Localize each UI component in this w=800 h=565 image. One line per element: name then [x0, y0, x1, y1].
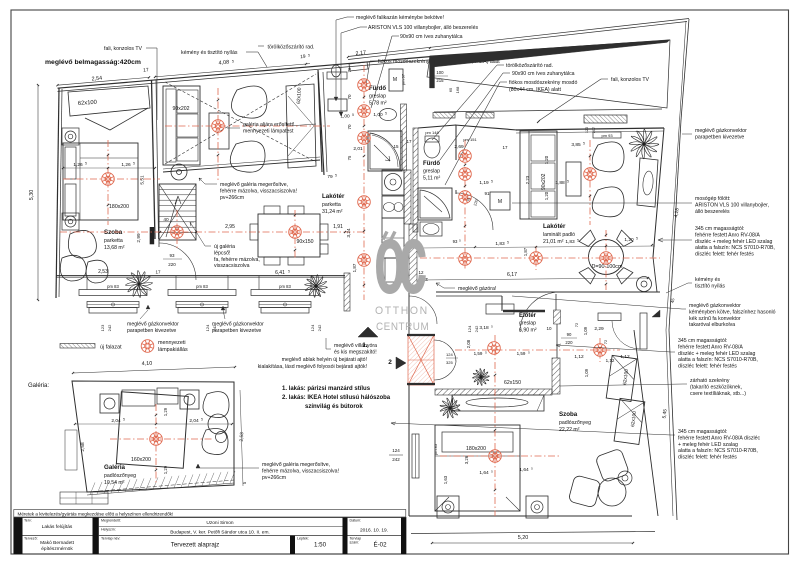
svg-text:meglévő belmagasság:420cm: meglévő belmagasság:420cm — [45, 59, 141, 66]
svg-text:215: 215 — [436, 78, 444, 83]
svg-text:pm 148: pm 148 — [425, 130, 439, 135]
svg-text:2,99: 2,99 — [136, 233, 142, 243]
washer M box top — [389, 69, 403, 91]
svg-text:5,20: 5,20 — [518, 535, 529, 541]
svg-text:1,00: 1,00 — [340, 114, 350, 120]
svg-text:5: 5 — [577, 239, 579, 243]
legend lamp symbol — [141, 340, 154, 353]
svg-text:parapetben kivezetve: parapetben kivezetve — [695, 134, 744, 140]
sofa 90x202 — [163, 86, 200, 165]
svg-text:2,23: 2,23 — [525, 175, 530, 184]
svg-text:17: 17 — [155, 270, 161, 275]
svg-text:díszléc felett: fehér festés: díszléc felett: fehér festés — [695, 252, 754, 258]
szoba2 wardrobes 62x100 — [606, 355, 637, 401]
svg-text:kialakítása, lásd meglévő foly: kialakítása, lásd meglévő folyosói bejár… — [258, 364, 367, 370]
szoba2 chairs — [595, 448, 630, 483]
slab bottom edge line — [434, 109, 662, 112]
washer M unit2 — [490, 192, 510, 210]
svg-text:1,91: 1,91 — [333, 224, 343, 230]
site boundary top — [348, 19, 689, 57]
svg-text:pm 83: pm 83 — [279, 284, 291, 289]
stairs — [159, 184, 196, 240]
dimension 2,17 top — [347, 56, 349, 58]
site boundary right inner line — [666, 21, 686, 330]
gallery wardrobe right — [286, 84, 316, 168]
svg-text:mosógép fölött:: mosógép fölött: — [695, 196, 730, 202]
szoba2 nightstands — [437, 496, 459, 518]
svg-text:parapetben kivezetve: parapetben kivezetve — [212, 328, 261, 334]
svg-text:alatta a falszín: NCS S7010-R7: alatta a falszín: NCS S7010-R70B, — [695, 245, 775, 251]
svg-text:parapetben kivezetve: parapetben kivezetve — [127, 328, 176, 334]
svg-text:törölközőszárító rad.: törölközőszárító rad. — [268, 45, 315, 51]
svg-text:2,04: 2,04 — [189, 418, 199, 424]
svg-text:19: 19 — [300, 54, 306, 60]
svg-text:Lakótér: Lakótér — [322, 193, 345, 200]
svg-text:1.: 1. — [362, 342, 368, 349]
title note row — [14, 510, 406, 518]
svg-text:91: 91 — [484, 191, 490, 196]
wall hatched bath1 right — [401, 104, 407, 170]
svg-text:5: 5 — [201, 418, 203, 422]
svg-text:21,01 m²: 21,01 m² — [543, 239, 564, 245]
svg-text:greslap: greslap — [423, 169, 440, 175]
svg-text:színvilág és bútorok: színvilág és bútorok — [305, 404, 363, 410]
bath1 bidet — [349, 62, 368, 71]
svg-text:M: M — [393, 77, 397, 83]
table chairs — [615, 266, 633, 284]
svg-text:Lakótér: Lakótér — [543, 223, 566, 230]
svg-text:1,20: 1,20 — [544, 155, 549, 164]
svg-text:1,09: 1,09 — [583, 326, 588, 335]
svg-text:2016. 10. 19.: 2016. 10. 19. — [360, 528, 388, 534]
svg-text:2,54: 2,54 — [91, 76, 102, 83]
kitchen cabinets — [382, 170, 404, 195]
dimension left 5,30 — [37, 85, 39, 300]
svg-text:5: 5 — [123, 418, 125, 422]
galeria lower hatched strip — [87, 480, 234, 492]
svg-text:90x202: 90x202 — [541, 173, 547, 190]
svg-text:H: H — [424, 278, 429, 281]
svg-text:meglévő gázkonvektor: meglévő gázkonvektor — [127, 322, 179, 328]
svg-text:1,59: 1,59 — [517, 351, 526, 356]
svg-text:törölközőszárító rad.: törölközőszárító rad. — [506, 63, 553, 69]
living2 sideboard — [637, 158, 658, 207]
svg-text:É-02: É-02 — [373, 542, 387, 549]
svg-text:1,20: 1,20 — [544, 191, 549, 200]
svg-text:Lakás felújítás: Lakás felújítás — [42, 524, 73, 530]
svg-text:fehérre mázolva, visszacsiszol: fehérre mázolva, visszacsiszolva! — [220, 188, 297, 194]
axis lines red — [63, 178, 160, 180]
galeria armchairs — [100, 394, 119, 413]
svg-text:díszléc + meleg fehér LED szal: díszléc + meleg fehér LED szalag — [695, 239, 773, 245]
svg-text:90: 90 — [567, 332, 572, 337]
svg-text:6,17: 6,17 — [507, 272, 517, 278]
svg-text:76: 76 — [347, 67, 352, 73]
svg-text:4,10: 4,10 — [142, 361, 153, 367]
elotér hatch wall piece — [554, 310, 561, 324]
svg-text:124: 124 — [446, 352, 453, 357]
svg-text:5: 5 — [567, 180, 569, 184]
svg-text:1,20: 1,20 — [624, 237, 634, 243]
svg-text:5: 5 — [385, 112, 387, 116]
svg-text:5: 5 — [583, 142, 585, 146]
svg-text:2. lakás: IKEA Hotel stílusú h: 2. lakás: IKEA Hotel stílusú hálószoba — [282, 395, 391, 401]
svg-text:6,90 m²: 6,90 m² — [519, 328, 537, 334]
dim 6,17 — [420, 278, 648, 280]
svg-text:65: 65 — [448, 87, 453, 92]
svg-text:meglévő villanyóra: meglévő villanyóra — [334, 343, 377, 349]
bath2 door arc — [456, 193, 493, 230]
svg-text:1:50: 1:50 — [314, 542, 327, 549]
svg-text:1,29: 1,29 — [163, 407, 168, 416]
gallery dashed outline — [165, 82, 316, 162]
svg-text:124: 124 — [392, 448, 400, 453]
svg-text:fehérre mázolva, visszacsiszol: fehérre mázolva, visszacsiszolva! — [262, 468, 339, 474]
svg-text:2,04: 2,04 — [111, 418, 121, 424]
dimension top left 2,54 — [58, 77, 150, 85]
svg-text:galéria aljára erősített!: galéria aljára erősített! — [243, 122, 294, 128]
svg-text:2,17: 2,17 — [355, 50, 366, 57]
svg-text:meglévő ablak helyén új bejára: meglévő ablak helyén új bejárati ajtó! — [282, 357, 367, 363]
svg-text:kémény és tisztító nyílás: kémény és tisztító nyílás — [181, 50, 238, 56]
svg-text:62x150: 62x150 — [504, 380, 521, 386]
szoba2 hatched wall piece — [552, 358, 560, 394]
svg-text:M: M — [498, 199, 502, 205]
dims gallery row — [63, 231, 364, 233]
szoba2 right slanted wall — [634, 330, 658, 516]
svg-text:visszacsiszolva: visszacsiszolva — [214, 263, 250, 269]
svg-text:Fürdő: Fürdő — [423, 161, 440, 167]
svg-text:+ meleg fehér LED szalag: + meleg fehér LED szalag — [678, 442, 738, 448]
svg-text:124: 124 — [310, 324, 315, 331]
svg-text:242: 242 — [474, 325, 479, 332]
svg-text:5: 5 — [507, 241, 509, 245]
bath1 washbasin — [380, 109, 397, 121]
svg-text:Előtér: Előtér — [519, 313, 537, 319]
svg-text:1,87: 1,87 — [352, 263, 357, 272]
wall gallery/bath vertical — [318, 72, 322, 172]
szoba2 62x150 cabinet — [452, 395, 544, 411]
svg-text:1,12: 1,12 — [606, 358, 615, 363]
svg-text:1,26: 1,26 — [121, 162, 131, 168]
svg-text:3,26: 3,26 — [464, 455, 469, 464]
svg-text:17: 17 — [406, 139, 412, 144]
svg-text:31,24 m²: 31,24 m² — [322, 209, 343, 215]
svg-text:kék színű fa konvektor: kék színű fa konvektor — [689, 316, 741, 322]
armchairs bedroom bottom — [68, 230, 96, 258]
galeria headboard — [122, 390, 155, 406]
svg-text:mennyezeti: mennyezeti — [158, 340, 186, 346]
svg-text:5: 5 — [133, 162, 135, 166]
svg-text:pm 83: pm 83 — [196, 284, 208, 289]
leader arrows to boiler — [335, 20, 337, 97]
svg-text:325: 325 — [446, 360, 453, 365]
marker 1 triangle — [358, 327, 378, 337]
svg-text:1,26: 1,26 — [73, 162, 83, 168]
svg-text:1,63: 1,63 — [443, 475, 448, 484]
svg-text:szám:: szám: — [350, 541, 360, 545]
dining table 90x150 — [258, 214, 320, 257]
plant bedroom — [126, 271, 153, 298]
svg-text:40: 40 — [163, 217, 169, 223]
living2 lamp table — [566, 162, 581, 196]
svg-text:70: 70 — [347, 94, 352, 100]
svg-text:Tervlap név:: Tervlap név: — [101, 537, 120, 541]
svg-text:1,12: 1,12 — [574, 354, 584, 360]
ceiling lamps — [102, 173, 115, 186]
svg-text:pm 83: pm 83 — [433, 443, 438, 455]
svg-text:220: 220 — [168, 262, 176, 267]
svg-text:ARISTON VLS 100 villanybojler,: ARISTON VLS 100 villanybojler, álló besz… — [368, 25, 478, 31]
svg-text:zárható szekrény: zárható szekrény — [690, 378, 730, 384]
svg-text:15: 15 — [393, 144, 399, 149]
gallery big leaf chairs — [231, 86, 267, 118]
svg-text:Szoba: Szoba — [104, 229, 123, 236]
elotér bench — [598, 313, 621, 321]
svg-text:123: 123 — [100, 324, 105, 331]
svg-text:345 cm magasságtól:: 345 cm magasságtól: — [678, 429, 727, 435]
svg-text:93: 93 — [169, 253, 175, 258]
existing wall black wedge — [430, 40, 670, 67]
svg-text:2,29: 2,29 — [594, 326, 604, 332]
svg-text:3,18: 3,18 — [479, 325, 489, 331]
svg-text:parketta: parketta — [322, 202, 341, 208]
axis tick slashes — [363, 96, 365, 98]
svg-text:ARISTON VLS 100 villanybojler,: ARISTON VLS 100 villanybojler, — [695, 202, 769, 208]
svg-text:új galéria: új galéria — [214, 244, 235, 250]
svg-text:meglévő galéria megerősítve,: meglévő galéria megerősítve, — [262, 462, 330, 468]
svg-text:OTTHON: OTTHON — [375, 305, 429, 317]
svg-text:oc: oc — [374, 203, 426, 315]
tv cabinet top — [584, 115, 627, 123]
radiator box elotér — [486, 304, 514, 314]
svg-text:meglévő gázkonvektor: meglévő gázkonvektor — [212, 322, 264, 328]
svg-text:1,83: 1,83 — [495, 241, 505, 247]
svg-text:5,30: 5,30 — [29, 190, 35, 201]
svg-text:Dátum:: Dátum: — [350, 519, 362, 523]
living2 sofa 90x202 — [520, 131, 557, 219]
bedside tables with rings — [62, 128, 79, 145]
svg-text:greslap: greslap — [369, 94, 386, 100]
svg-text:75: 75 — [347, 155, 352, 160]
svg-text:5: 5 — [288, 270, 290, 274]
svg-text:2,08: 2,08 — [466, 339, 471, 348]
svg-text:Budapest, V. ker. Petőfi Sándo: Budapest, V. ker. Petőfi Sándor utca 10.… — [170, 530, 270, 536]
svg-text:fehérre festett Anro RV-08/A: fehérre festett Anro RV-08/A — [678, 344, 743, 350]
svg-text:Megrendelő:: Megrendelő: — [101, 519, 121, 523]
svg-text:90x202: 90x202 — [172, 106, 189, 112]
svg-text:5: 5 — [232, 60, 234, 64]
svg-text:díszléc felett: fehér festés: díszléc felett: fehér festés — [678, 364, 737, 370]
entrance door arcs — [434, 340, 456, 362]
round side table by sofa — [171, 164, 187, 180]
szoba2 table oval — [466, 398, 528, 407]
svg-text:100: 100 — [436, 70, 444, 75]
svg-text:Helyszín:: Helyszín: — [101, 528, 116, 532]
gallery lamp box — [209, 113, 229, 149]
svg-text:242: 242 — [392, 457, 400, 462]
svg-text:2,58: 2,58 — [80, 442, 86, 452]
svg-text:62x100: 62x100 — [296, 87, 303, 104]
svg-text:345 cm magasságtól:: 345 cm magasságtól: — [678, 338, 727, 344]
svg-text:1,12: 1,12 — [620, 354, 630, 360]
svg-text:168: 168 — [455, 86, 460, 93]
svg-text:1,59: 1,59 — [474, 351, 483, 356]
svg-text:2: 2 — [388, 359, 392, 366]
svg-text:5: 5 — [335, 174, 337, 178]
bath1 wc — [327, 72, 347, 79]
svg-text:90x90 cm íves zuhanytálca: 90x90 cm íves zuhanytálca — [400, 34, 463, 40]
svg-text:(takarító eszközöknek,: (takarító eszközöknek, — [690, 384, 742, 390]
wall below entrance hatched — [435, 389, 552, 395]
elotér walls — [436, 291, 660, 293]
galeria sofa right — [203, 392, 229, 418]
svg-text:93: 93 — [453, 239, 458, 244]
dims bedroom — [63, 167, 155, 169]
watermark oc logo — [374, 203, 429, 333]
svg-text:220: 220 — [565, 340, 573, 345]
wall bedroom/living vertical — [152, 81, 156, 240]
svg-text:és kis megszakító!: és kis megszakító! — [334, 349, 377, 355]
site boundary right lower — [669, 330, 677, 520]
svg-text:tisztító nyílás: tisztító nyílás — [695, 283, 725, 289]
svg-text:1. lakás: párizsi manzárd stíl: 1. lakás: párizsi manzárd stílus — [282, 386, 371, 392]
svg-text:(80x44 cm, IKEA) alatt: (80x44 cm, IKEA) alatt — [509, 87, 561, 93]
bed 180x200 — [63, 143, 138, 220]
svg-text:72: 72 — [574, 322, 579, 327]
svg-text:kéményben kötve, falszínhez ha: kéményben kötve, falszínhez hasonló — [689, 309, 776, 315]
svg-text:90x150: 90x150 — [296, 239, 313, 245]
wall right of gallery — [318, 70, 324, 175]
bedroom outline — [56, 89, 59, 299]
svg-text:17: 17 — [502, 145, 508, 150]
svg-text:1,29: 1,29 — [163, 465, 168, 474]
svg-text:5,11 m²: 5,11 m² — [423, 176, 440, 182]
svg-text:242: 242 — [317, 324, 322, 331]
svg-text:Tervező:: Tervező: — [24, 537, 38, 541]
svg-text:meglévő falikazán kéménybe bek: meglévő falikazán kéménybe bekötve! — [356, 15, 444, 21]
wardrobe door leaf — [640, 313, 647, 349]
svg-text:meglévő galéria megerősítve,: meglévő galéria megerősítve, — [220, 182, 288, 188]
svg-text:79: 79 — [327, 174, 333, 180]
bath1 shower — [368, 131, 402, 171]
site boundary right upper — [681, 19, 689, 120]
svg-text:6,41: 6,41 — [275, 270, 285, 276]
neighbour slab trapezoid — [427, 40, 670, 108]
svg-text:124: 124 — [205, 324, 210, 331]
svg-text:180x200: 180x200 — [109, 204, 129, 210]
svg-text:3,85: 3,85 — [571, 142, 581, 148]
facade right corner — [344, 273, 350, 311]
living2 plant top — [629, 129, 659, 159]
svg-text:2,69: 2,69 — [454, 144, 464, 150]
dining chairs — [264, 206, 280, 214]
svg-text:padlószőnyeg: padlószőnyeg — [559, 420, 591, 426]
kitchen lower cabinet — [385, 258, 407, 282]
svg-text:fa, fehérre mázolva,: fa, fehérre mázolva, — [214, 257, 260, 263]
svg-text:90x90 cm íves zuhanytálca: 90x90 cm íves zuhanytálca — [512, 71, 575, 77]
bath2 washbasin box — [420, 222, 442, 236]
kitchen wall hatched — [409, 224, 417, 290]
dims living2 axis row — [420, 246, 655, 248]
svg-text:díszléc + meleg fehér LED szal: díszléc + meleg fehér LED szalag — [678, 351, 756, 357]
svg-text:5,78 m²: 5,78 m² — [369, 101, 387, 107]
unit2 entry walls — [455, 125, 517, 130]
svg-text:pv+266cm: pv+266cm — [262, 475, 286, 481]
site boundary bottom — [411, 532, 655, 534]
svg-text:2,95: 2,95 — [225, 224, 235, 230]
svg-text:fehérre festett Anro RV-08/A d: fehérre festett Anro RV-08/A díszléc — [678, 435, 760, 441]
svg-text:alatta a falszín: NCS S7010-R7: alatta a falszín: NCS S7010-R70B, — [678, 448, 758, 454]
szoba2 outline — [409, 515, 632, 517]
svg-text:160x200: 160x200 — [131, 457, 151, 463]
svg-text:pm 83: pm 83 — [107, 284, 119, 289]
svg-text:2,53: 2,53 — [98, 269, 108, 275]
svg-text:fehérre festett Anro RV-08/A: fehérre festett Anro RV-08/A — [695, 232, 760, 238]
svg-text:CENTRUM: CENTRUM — [376, 322, 429, 334]
svg-text:17: 17 — [143, 67, 149, 73]
svg-text:1,87: 1,87 — [523, 247, 528, 256]
galeria steps bottom left — [60, 492, 108, 504]
svg-text:építészmérnök: építészmérnök — [41, 546, 73, 552]
svg-text:padlószőnyeg: padlószőnyeg — [104, 473, 136, 479]
galeria bed rotated — [116, 392, 188, 468]
svg-text:Fürdő: Fürdő — [369, 86, 386, 92]
svg-text:Galéria: Galéria — [104, 464, 126, 471]
dims galeria — [73, 367, 235, 373]
svg-text:10: 10 — [546, 326, 552, 331]
svg-text:1,00: 1,00 — [373, 112, 383, 118]
svg-text:2,01: 2,01 — [353, 146, 363, 152]
svg-text:207: 207 — [592, 127, 596, 133]
svg-text:álló beszerelés: álló beszerelés — [695, 209, 730, 215]
galeria outline — [72, 381, 234, 492]
svg-text:csere textíliáknak, stb...): csere textíliáknak, stb...) — [690, 391, 746, 397]
svg-text:kémény és: kémény és — [695, 277, 720, 283]
svg-text:345 cm magasságtól:: 345 cm magasságtól: — [695, 226, 744, 232]
svg-text:4,08: 4,08 — [218, 60, 229, 67]
szoba2 bed — [435, 425, 520, 511]
svg-text:takaróval elburkolva: takaróval elburkolva — [689, 322, 735, 328]
svg-text:meglévő gázóra!: meglévő gázóra! — [458, 286, 496, 292]
elotér door arc — [520, 292, 560, 332]
corridor wall above entrance — [408, 292, 410, 335]
dim 5,20 bottom — [432, 542, 633, 544]
svg-text:parketta: parketta — [104, 238, 123, 244]
svg-text:pm 97: pm 97 — [401, 73, 406, 85]
svg-text:2,53: 2,53 — [239, 432, 245, 442]
svg-text:5: 5 — [85, 162, 87, 166]
boiler wall unit — [328, 99, 347, 111]
black triangle wall mark — [652, 310, 660, 317]
plant szoba2 — [440, 398, 460, 418]
svg-text:120: 120 — [585, 127, 589, 133]
svg-text:meglévő gázkonvektor: meglévő gázkonvektor — [689, 303, 741, 309]
svg-text:Méretek a kivitelezés/gyártás: Méretek a kivitelezés/gyártás megkezdése… — [18, 511, 174, 516]
svg-text:Uzoni Simon: Uzoni Simon — [206, 520, 234, 526]
svg-text:pv+266cm: pv+266cm — [220, 195, 244, 201]
svg-text:1,19: 1,19 — [479, 180, 489, 186]
wardrobe 62x100 top — [68, 86, 150, 116]
szoba2 canopy corners — [435, 497, 449, 511]
svg-text:1,88: 1,88 — [555, 180, 565, 186]
svg-text:72: 72 — [603, 339, 608, 344]
svg-text:fali, konzolos TV: fali, konzolos TV — [104, 46, 143, 52]
svg-text:22,22 m²: 22,22 m² — [559, 427, 580, 433]
annotation leader lines top — [347, 16, 354, 18]
bedroom top wall — [58, 57, 431, 89]
bottom facade wall unit1 — [56, 275, 345, 277]
